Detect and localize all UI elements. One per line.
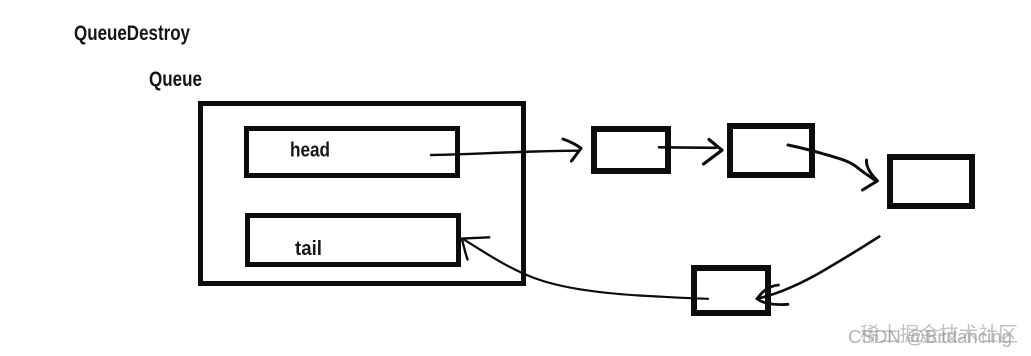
arrowhead into node4 [757, 285, 788, 305]
wire head to node1 [431, 151, 577, 155]
arrowhead head to node1 [563, 139, 581, 161]
head field box [247, 129, 458, 176]
node 2 box [730, 126, 812, 175]
node 4 box (bottom) [694, 268, 768, 313]
node 1 box [594, 129, 668, 171]
wire node2 to node3 [788, 145, 874, 180]
arrowhead node1 to node2 [704, 140, 723, 165]
wire node4 to tail [463, 239, 708, 299]
svg-text:Queue: Queue [149, 68, 202, 91]
node 3 box [890, 157, 972, 206]
tail field box [248, 216, 459, 265]
svg-text:tail: tail [295, 238, 322, 260]
svg-text:稀土掘金技术社区: 稀土掘金技术社区 [860, 323, 1018, 346]
wire node3 to node4 [759, 237, 880, 299]
wire node1 to node2 [659, 146, 716, 149]
queue struct outer box [201, 104, 524, 284]
svg-text:QueueDestroy: QueueDestroy [74, 22, 190, 45]
svg-text:head: head [290, 140, 330, 162]
arrowhead node2 to node3 [863, 160, 878, 190]
arrowhead into tail [462, 237, 490, 259]
